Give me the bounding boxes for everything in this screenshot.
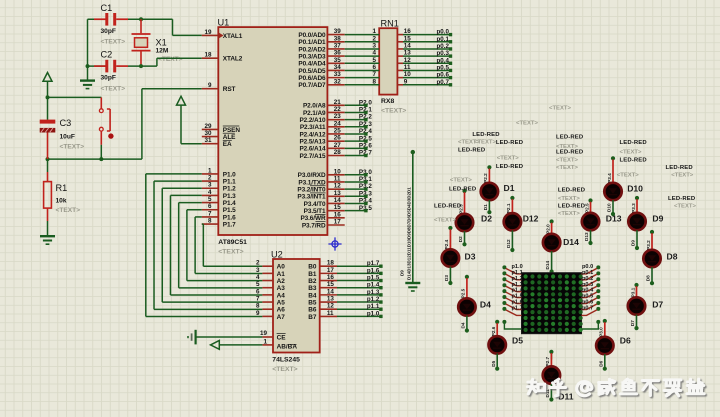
wire P1.4 to U2 A3	[179, 202, 202, 204]
node rail left junction	[46, 157, 50, 161]
svg-text:9: 9	[404, 78, 408, 85]
U1 pin 31 EA	[202, 143, 219, 145]
svg-text:32: 32	[334, 78, 342, 85]
U1 pin 11 P3.1/TXD	[327, 181, 344, 183]
LED D6 top terminal	[603, 319, 607, 323]
svg-text:P3.3/INT1: P3.3/INT1	[297, 194, 326, 201]
svg-text:C3: C3	[60, 118, 72, 128]
LED D9 anode wire P3.3	[636, 199, 638, 213]
wire crystal caps vertical	[87, 19, 89, 80]
svg-text:LED-RED: LED-RED	[434, 203, 461, 209]
LED D6 anode wire P3.0	[604, 322, 606, 337]
LED D3 anode wire P2.4	[449, 229, 451, 249]
LED D13 cathode wire	[590, 230, 592, 242]
LED D1 cathode wire	[488, 200, 490, 211]
LED D8 anode wire P3.2	[651, 233, 653, 250]
svg-text:P3.0/RXD: P3.0/RXD	[298, 172, 326, 179]
wire P1.6 to U2 A1	[195, 216, 202, 218]
svg-text:2: 2	[256, 260, 260, 267]
svg-text:P2.3/A11: P2.3/A11	[300, 124, 326, 131]
svg-text:<TEXT>: <TEXT>	[671, 173, 693, 179]
LED D4 top terminal	[465, 275, 469, 279]
wire P2.2 label	[345, 119, 366, 121]
svg-text:D13: D13	[584, 232, 589, 241]
svg-text:1: 1	[263, 338, 267, 345]
svg-text:12: 12	[404, 57, 412, 64]
svg-text:3: 3	[208, 182, 212, 189]
svg-text:7: 7	[372, 71, 376, 78]
svg-text:11: 11	[334, 175, 341, 182]
svg-text:7: 7	[208, 210, 212, 217]
power arrow for EA	[177, 96, 186, 105]
U2 pin 1 AB/BA	[262, 344, 273, 346]
U2 pin 4 A2	[262, 280, 273, 282]
svg-text:D6: D6	[620, 336, 631, 346]
wire reset rail	[48, 158, 142, 160]
LED D4 anode wire P2.5	[466, 278, 468, 298]
svg-text:17: 17	[334, 218, 342, 225]
svg-text:26: 26	[334, 135, 342, 142]
svg-text:A3: A3	[277, 285, 286, 292]
U1 pin 23 P2.2/A10	[327, 119, 344, 121]
svg-text:13: 13	[327, 296, 335, 303]
svg-text:A1: A1	[277, 271, 286, 278]
LED D6 cathode wire	[604, 354, 606, 368]
svg-text:<TEXT>: <TEXT>	[516, 120, 538, 126]
U1 pin 12 P3.2/INT0	[327, 188, 344, 190]
svg-text:B2: B2	[308, 278, 317, 285]
LED D3 top terminal	[448, 226, 452, 230]
svg-text:35: 35	[334, 57, 342, 64]
svg-text:P3.2/INT0: P3.2/INT0	[297, 187, 326, 194]
U1 pin 32 P0.7/AD7	[327, 84, 344, 86]
svg-text:<TEXT>: <TEXT>	[60, 143, 85, 150]
svg-text:p0.2: p0.2	[437, 43, 450, 50]
matrix right pin p0.2	[596, 277, 600, 281]
LED D9 cathode wire	[636, 230, 638, 247]
svg-text:D7: D7	[652, 300, 663, 310]
U1 pin 8 P1.7	[202, 223, 219, 225]
svg-text:33: 33	[334, 71, 342, 78]
svg-text:LED-RED: LED-RED	[458, 148, 485, 154]
svg-text:36: 36	[334, 50, 342, 57]
svg-text:<TEXT>: <TEXT>	[101, 85, 126, 92]
svg-text:P2.4/A12: P2.4/A12	[299, 131, 326, 138]
LED D2 body	[456, 214, 473, 231]
LED D1 top terminal	[487, 165, 491, 169]
wire P0.2 to RN1 pin 3	[345, 48, 380, 50]
svg-text:D14: D14	[545, 261, 550, 270]
U1 XTAL1 pin arrow	[219, 33, 224, 39]
matrix left pin p1.2	[502, 277, 506, 281]
LED D5 anode wire P2.6	[496, 323, 498, 336]
svg-text:A2: A2	[277, 278, 286, 285]
svg-text:<TEXT>: <TEXT>	[272, 366, 297, 373]
U1 pin 4 P1.3	[202, 194, 219, 196]
LED D11 body	[543, 366, 560, 383]
LED D10 bottom terminal	[611, 212, 615, 216]
svg-text:6: 6	[208, 203, 212, 210]
svg-text:B4: B4	[308, 292, 317, 299]
svg-text:P2.0: P2.0	[545, 224, 550, 234]
U1 pin 6 P1.5	[202, 209, 219, 211]
matrix right pin p0.6	[596, 301, 600, 305]
U2 pin 8 A6	[262, 308, 273, 310]
LED D12 bottom terminal	[510, 248, 514, 252]
wire P1.3 to U2 A4	[170, 194, 201, 196]
power symbol (rotated left) at AB/BA	[211, 341, 220, 350]
LED D10 top terminal	[611, 156, 615, 160]
svg-text:7: 7	[256, 295, 260, 302]
svg-text:p1.4: p1.4	[367, 282, 380, 289]
svg-text:P2.4: P2.4	[444, 239, 449, 249]
U2 pin 15 B3 wire p1.4	[320, 287, 337, 289]
U1 pin 2 P1.1	[202, 180, 219, 182]
svg-text:12M: 12M	[156, 47, 169, 54]
matrix right pin p0.1	[596, 271, 600, 275]
svg-text:D14D13D12D11D10D9D8D7D6D5D4D3D: D14D13D12D11D10D9D8D7D6D5D4D3D2D1	[406, 187, 411, 280]
svg-text:B0: B0	[308, 264, 317, 271]
svg-text:<TEXT>: <TEXT>	[381, 107, 406, 114]
svg-text:P3.4: P3.4	[607, 173, 612, 183]
svg-text:P3.3: P3.3	[631, 203, 636, 213]
svg-text:D12: D12	[523, 214, 539, 224]
wire junction to button	[48, 96, 102, 98]
U1 pin 37 P0.2/AD2	[327, 48, 344, 50]
wire P2.3 label	[345, 126, 366, 128]
svg-text:3: 3	[372, 42, 376, 49]
svg-text:10: 10	[334, 168, 342, 175]
U1 pin 5 P1.4	[202, 202, 219, 204]
svg-text:13: 13	[404, 50, 412, 57]
U2 pin 17 B1 wire p1.6	[320, 272, 337, 274]
RN1 pin 16 wire p0.0	[397, 34, 403, 36]
op U1 AT89C51 body	[218, 27, 327, 235]
svg-text:A5: A5	[277, 299, 286, 306]
U2 pin 13 B5 wire p1.2	[320, 301, 337, 303]
U1 pin 3 P1.2	[202, 187, 219, 189]
svg-text:12: 12	[327, 303, 335, 310]
wire rail to RST pin	[141, 89, 143, 159]
svg-text:3: 3	[256, 267, 260, 274]
svg-text:74LS245: 74LS245	[272, 357, 300, 364]
svg-text:D4: D4	[461, 322, 466, 328]
LED D7 body	[628, 297, 645, 314]
svg-text:P1.7: P1.7	[223, 221, 236, 228]
resistor R1	[47, 159, 49, 172]
node power junction	[46, 95, 50, 99]
LED D3 cathode wire	[449, 267, 451, 282]
wire C2 left	[88, 65, 106, 67]
svg-text:11: 11	[327, 310, 334, 317]
RN1 pin 15 wire p0.1	[397, 41, 403, 43]
svg-text:<TEXT>: <TEXT>	[158, 56, 183, 63]
svg-text:2: 2	[372, 35, 376, 42]
U1 pin 29 PSEN	[202, 128, 219, 130]
RN1 pin 10 wire p0.6	[397, 77, 403, 79]
LED D10 anode wire P3.4	[612, 160, 614, 183]
U1 pin 15 P3.5/T1	[327, 210, 344, 212]
U1 pin 18 XTAL2	[202, 57, 219, 59]
node C2 left junction	[86, 64, 90, 68]
svg-text:LED-RED: LED-RED	[556, 150, 583, 156]
svg-text:D2: D2	[481, 214, 492, 224]
svg-text:LED-RED: LED-RED	[666, 165, 693, 171]
U2 pin 11 B7 wire p1.0	[320, 315, 337, 317]
RN1 pin 14 wire p0.2	[397, 48, 403, 50]
LED D9 body	[628, 213, 645, 230]
capacitor C2	[94, 65, 106, 67]
svg-text:P0.2/AD2: P0.2/AD2	[298, 46, 326, 53]
svg-text:<TEXT>: <TEXT>	[450, 177, 472, 183]
U1 pin 35 P0.4/AD4	[327, 62, 344, 64]
svg-text:30pF: 30pF	[101, 75, 116, 82]
svg-text:4: 4	[372, 50, 376, 57]
svg-text:19: 19	[260, 330, 268, 337]
svg-text:D13: D13	[606, 214, 622, 224]
U1 pin 21 P2.0/A8	[327, 104, 344, 106]
svg-text:D5: D5	[491, 360, 496, 366]
svg-text:p1.0: p1.0	[367, 310, 380, 317]
wire C1 to XTAL1	[128, 18, 173, 20]
LED D10 body	[604, 183, 621, 200]
svg-text:P1.0: P1.0	[223, 171, 236, 178]
svg-text:4: 4	[208, 189, 212, 196]
svg-text:B3: B3	[308, 285, 317, 292]
svg-text:P3.1: P3.1	[630, 287, 635, 297]
LED D3 body	[442, 249, 459, 266]
U1 pin 36 P0.3/AD3	[327, 55, 344, 57]
LED matrix dots	[524, 274, 583, 332]
svg-text:D5: D5	[512, 336, 523, 346]
svg-text:D1: D1	[483, 204, 488, 210]
svg-text:D2: D2	[458, 236, 463, 242]
svg-text:8: 8	[208, 217, 212, 224]
LED D12 anode wire P2.1	[511, 199, 513, 213]
ground under R1	[40, 235, 55, 237]
U1 pin 17 P3.7/RD	[327, 224, 344, 226]
LED D13 bottom terminal	[588, 241, 592, 245]
svg-text:P1.1: P1.1	[223, 178, 236, 185]
wire P2.6 label	[345, 147, 366, 149]
svg-text:A7: A7	[277, 314, 286, 321]
svg-text:LED-RED: LED-RED	[472, 132, 499, 138]
LED D2 anode wire P2.3	[464, 192, 466, 214]
svg-text:C1: C1	[101, 3, 113, 13]
wire P2.0 label	[345, 104, 366, 106]
svg-text:CE: CE	[277, 334, 287, 341]
svg-text:14: 14	[327, 288, 335, 295]
U1 pin 22 P2.1/A9	[327, 111, 344, 113]
svg-text:B7: B7	[308, 314, 317, 321]
LED D13 body	[582, 213, 599, 230]
svg-text:25: 25	[334, 127, 342, 134]
svg-text:P2.2: P2.2	[483, 173, 488, 183]
svg-text:<TEXT>: <TEXT>	[558, 196, 580, 202]
LED D12 top terminal	[510, 196, 514, 200]
svg-text:p1.1: p1.1	[367, 303, 380, 310]
node X1 bottom junction	[139, 64, 143, 68]
svg-text:<TEXT>: <TEXT>	[474, 139, 496, 145]
LED D3 bottom terminal	[448, 281, 452, 285]
wire P2.4 label	[345, 133, 366, 135]
watermark zhihu logo text	[528, 379, 704, 396]
U1 pin 30 ALE	[202, 136, 219, 138]
svg-text:p1.3: p1.3	[367, 289, 380, 296]
svg-text:P3.1/TXD: P3.1/TXD	[298, 179, 326, 186]
svg-text:12: 12	[334, 183, 342, 190]
LED D8 body	[643, 250, 660, 267]
svg-text:P2.1/A9: P2.1/A9	[303, 110, 326, 117]
wire P3.0 label	[345, 174, 366, 176]
svg-text:5: 5	[256, 281, 260, 288]
svg-text:1: 1	[208, 167, 212, 174]
svg-text:10uF: 10uF	[60, 134, 75, 141]
svg-text:15: 15	[334, 204, 342, 211]
wire P0.4 to RN1 pin 5	[345, 62, 380, 64]
svg-text:6: 6	[256, 288, 260, 295]
svg-text:5: 5	[208, 196, 212, 203]
svg-text:23: 23	[334, 113, 342, 120]
svg-text:9: 9	[256, 310, 260, 317]
svg-text:<TEXT>: <TEXT>	[56, 207, 81, 214]
wire power to junction	[47, 81, 49, 97]
matrix left pin p1.3	[502, 283, 506, 287]
matrix left pin p1.1	[502, 271, 506, 275]
svg-text:P3.7/RD: P3.7/RD	[302, 222, 326, 229]
svg-text:RX8: RX8	[381, 98, 394, 105]
wire P3.2 label	[345, 188, 366, 190]
wire P2.1 label	[345, 111, 366, 113]
wire P0.6 to RN1 pin 7	[345, 77, 380, 79]
U2 pin 6 A4	[262, 294, 273, 296]
U1 pin 25 P2.4/A12	[327, 133, 344, 135]
op U2 74LS245 body	[273, 259, 320, 353]
svg-text:p1.7: p1.7	[367, 260, 380, 267]
svg-text:10k: 10k	[56, 198, 67, 205]
svg-text:D1: D1	[504, 183, 515, 193]
svg-text:<TEXT>: <TEXT>	[556, 157, 578, 163]
wire P3.1 label	[345, 181, 366, 183]
svg-text:<TEXT>: <TEXT>	[549, 105, 571, 111]
crystal X1	[140, 19, 142, 33]
LED D4 body	[458, 298, 475, 315]
origin marker crosshair	[328, 237, 341, 250]
LED D12 body	[504, 213, 521, 230]
svg-text:A4: A4	[277, 292, 286, 299]
LED D1 anode wire P2.2	[488, 169, 490, 183]
ground for C1 C2	[80, 79, 95, 81]
capacitor C1	[94, 18, 106, 20]
U2 pin 3 A1	[262, 272, 273, 274]
resistor network RN1 body	[379, 28, 397, 94]
U1 pin 7 P1.6	[202, 216, 219, 218]
LED D11 anode wire P2.7	[550, 353, 552, 366]
LED D11 cathode wire	[550, 384, 552, 399]
svg-text:D4: D4	[480, 300, 491, 310]
svg-text:U1: U1	[218, 18, 230, 28]
button red marker dot	[108, 133, 113, 138]
ground at D-bus bottom	[405, 282, 420, 284]
svg-text:1: 1	[372, 28, 376, 35]
RN1 pin 13 wire p0.3	[397, 55, 403, 57]
svg-text:P1.6: P1.6	[223, 214, 236, 221]
LED D5 top terminal	[495, 320, 499, 324]
LED D14 bottom terminal	[550, 269, 554, 273]
svg-text:LED-RED: LED-RED	[496, 140, 523, 146]
svg-text:p1.6: p1.6	[367, 267, 380, 274]
svg-text:D10: D10	[607, 203, 612, 212]
svg-text:D9: D9	[652, 214, 663, 224]
svg-text:P0.5/AD5: P0.5/AD5	[298, 68, 326, 75]
svg-text:22: 22	[334, 106, 342, 113]
svg-text:5: 5	[372, 57, 376, 64]
svg-text:<TEXT>: <TEXT>	[218, 248, 243, 255]
svg-text:13: 13	[334, 190, 342, 197]
LED D5 cathode wire	[496, 354, 498, 368]
LED D5 body	[489, 336, 506, 353]
wire P0.7 to RN1 pin 8	[345, 84, 380, 86]
svg-text:p0.5: p0.5	[437, 64, 450, 71]
svg-text:2: 2	[208, 174, 212, 181]
svg-text:P2.7: P2.7	[545, 356, 550, 366]
U1 pin 28 P2.7/A15	[327, 154, 344, 156]
wire vertical D-bus	[412, 152, 414, 282]
wire EA to power	[180, 105, 182, 144]
U2 pin 19 CE	[262, 336, 273, 338]
svg-text:D9: D9	[631, 240, 636, 246]
svg-text:P3.4/T0: P3.4/T0	[304, 201, 326, 208]
svg-text:P0.4/AD4: P0.4/AD4	[298, 61, 326, 68]
node button bottom junction	[99, 157, 103, 161]
LED D12 cathode wire	[511, 230, 513, 249]
svg-text:LED-RED: LED-RED	[620, 140, 647, 146]
svg-text:PSEN: PSEN	[223, 127, 241, 134]
LED D14 body	[543, 234, 560, 251]
svg-text:A0: A0	[277, 264, 286, 271]
svg-text:RST: RST	[223, 86, 236, 93]
svg-text:P1.2: P1.2	[223, 186, 236, 193]
matrix right pin elbow	[596, 320, 600, 324]
LED D9 bottom terminal	[635, 246, 639, 250]
svg-text:11: 11	[404, 64, 411, 71]
svg-text:<TEXT>: <TEXT>	[674, 204, 696, 210]
svg-text:D9: D9	[400, 270, 405, 276]
svg-text:4: 4	[256, 274, 260, 281]
svg-text:B6: B6	[308, 307, 317, 314]
svg-text:14: 14	[404, 42, 412, 49]
svg-text:P3.6/WR: P3.6/WR	[300, 215, 326, 222]
ground symbol (rotated) at CE	[195, 330, 197, 345]
svg-text:10: 10	[404, 71, 412, 78]
svg-text:p0.3: p0.3	[437, 50, 450, 57]
LED D2 bottom terminal	[462, 242, 466, 246]
svg-text:<TEXT>: <TEXT>	[617, 173, 639, 179]
svg-text:LED-RED: LED-RED	[668, 196, 695, 202]
svg-text:p0.4: p0.4	[437, 57, 450, 64]
wire button bottom	[100, 131, 102, 145]
svg-text:15: 15	[404, 35, 412, 42]
wire P0.3 to RN1 pin 4	[345, 55, 380, 57]
wire P0.1 to RN1 pin 2	[345, 41, 380, 43]
svg-text:39: 39	[334, 28, 342, 35]
svg-text:P0.1/AD1: P0.1/AD1	[298, 39, 326, 46]
wire C1 left to vertical	[88, 18, 106, 20]
svg-text:p1.2: p1.2	[367, 296, 380, 303]
svg-text:LED-RED: LED-RED	[558, 187, 585, 193]
svg-text:15: 15	[327, 281, 335, 288]
svg-text:P2.1: P2.1	[506, 203, 511, 213]
